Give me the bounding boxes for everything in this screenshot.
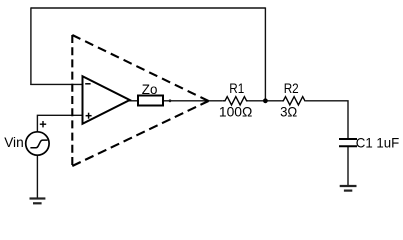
node junction dot R1-R2-feedback	[263, 98, 268, 103]
resistor R2 zigzag	[281, 97, 305, 105]
node pin dot after Zo	[169, 99, 172, 102]
wire R1 to junction to R2	[249, 100, 282, 102]
svg-text:3Ω: 3Ω	[280, 104, 297, 120]
svg-text:100Ω: 100Ω	[219, 104, 253, 120]
op-amp U1 triangle	[83, 76, 130, 124]
svg-text:Vin: Vin	[4, 134, 24, 150]
op-amp minus input marker	[85, 83, 90, 85]
wire R2 to C1	[305, 101, 348, 139]
ground below Vin	[30, 199, 46, 204]
voltage source Vin polarity plus	[40, 121, 46, 127]
wire feedback left vertical	[30, 7, 32, 85]
wire feedback top horizontal	[31, 7, 266, 9]
wire Vin source to ground	[36, 155, 38, 198]
voltage source Vin waveform	[30, 140, 47, 148]
dashed model boundary triangle left edge	[71, 35, 73, 166]
wire op-amp output to Zo	[129, 100, 138, 102]
svg-text:C1 1uF: C1 1uF	[356, 134, 400, 150]
wire Vin to non-inverting input	[37, 115, 82, 132]
voltage source Vin circle	[26, 132, 49, 155]
wire Zo to R1	[163, 100, 223, 102]
dashed model boundary triangle top edge	[72, 35, 208, 101]
capacitor C1 bottom plate	[339, 145, 357, 147]
op-amp plus input marker	[86, 113, 92, 119]
svg-text:Zo: Zo	[142, 81, 158, 97]
wire feedback right vertical	[264, 7, 266, 100]
wire C1 to ground	[347, 146, 349, 186]
resistor R1 zigzag	[223, 97, 249, 105]
wire inverting input	[30, 83, 82, 85]
resistor Zo box	[138, 96, 163, 106]
svg-text:R2: R2	[284, 80, 299, 96]
svg-text:R1: R1	[229, 80, 244, 96]
capacitor C1 top plate	[339, 138, 357, 140]
dashed model boundary triangle bottom edge	[72, 101, 208, 166]
ground below C1	[340, 186, 357, 191]
